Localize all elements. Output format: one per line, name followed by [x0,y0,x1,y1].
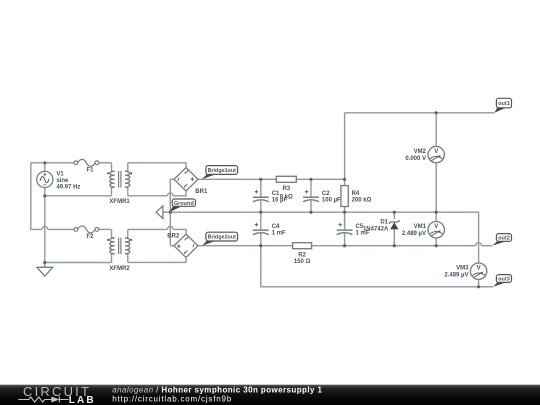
svg-text:F1: F1 [87,167,95,173]
svg-text:2.489 µV: 2.489 µV [444,273,468,279]
svg-text:V: V [434,149,438,155]
svg-text:LAB: LAB [69,395,96,405]
svg-text:XFMR2: XFMR2 [109,266,130,272]
svg-text:C4: C4 [272,224,280,230]
svg-text:V1: V1 [56,172,64,178]
svg-text:out3: out3 [498,277,510,283]
svg-text:R4: R4 [352,191,360,197]
svg-text:Bridge1out: Bridge1out [208,168,236,174]
svg-text:D1: D1 [380,219,388,225]
svg-text:http://circuitlab.com/cjsfn9b: http://circuitlab.com/cjsfn9b [112,395,232,404]
svg-text:1N4742A: 1N4742A [363,227,389,233]
svg-text:BR2: BR2 [167,234,180,240]
svg-text:F2: F2 [87,234,95,240]
svg-text:R3: R3 [282,186,290,192]
svg-text:V: V [477,266,481,272]
svg-text:VM2: VM2 [414,149,427,155]
svg-text:analogean / Hohner symphonic 3: analogean / Hohner symphonic 30n powersu… [112,385,322,394]
svg-text:C2: C2 [322,191,330,197]
svg-text:out1: out1 [498,101,510,107]
svg-text:1 mF: 1 mF [272,231,286,237]
svg-text:150 Ω: 150 Ω [294,259,311,265]
svg-text:out2: out2 [498,236,510,242]
svg-text:VM1: VM1 [414,224,427,230]
svg-text:200 kΩ: 200 kΩ [352,197,372,203]
svg-text:R2: R2 [298,252,306,258]
svg-text:0.000 V: 0.000 V [405,156,426,162]
svg-text:Ground: Ground [174,201,194,207]
svg-text:sine: sine [56,178,69,184]
svg-text:100 µF: 100 µF [322,198,341,204]
svg-text:XFMR1: XFMR1 [109,199,130,205]
svg-text:BR1: BR1 [195,189,208,195]
svg-text:Bridge2out: Bridge2out [208,235,236,241]
svg-text:49.97 Hz: 49.97 Hz [56,184,80,190]
svg-text:8 kΩ: 8 kΩ [280,194,293,200]
svg-text:V: V [434,224,438,230]
svg-text:VM3: VM3 [456,266,469,272]
svg-text:2.489 µV: 2.489 µV [402,231,426,237]
